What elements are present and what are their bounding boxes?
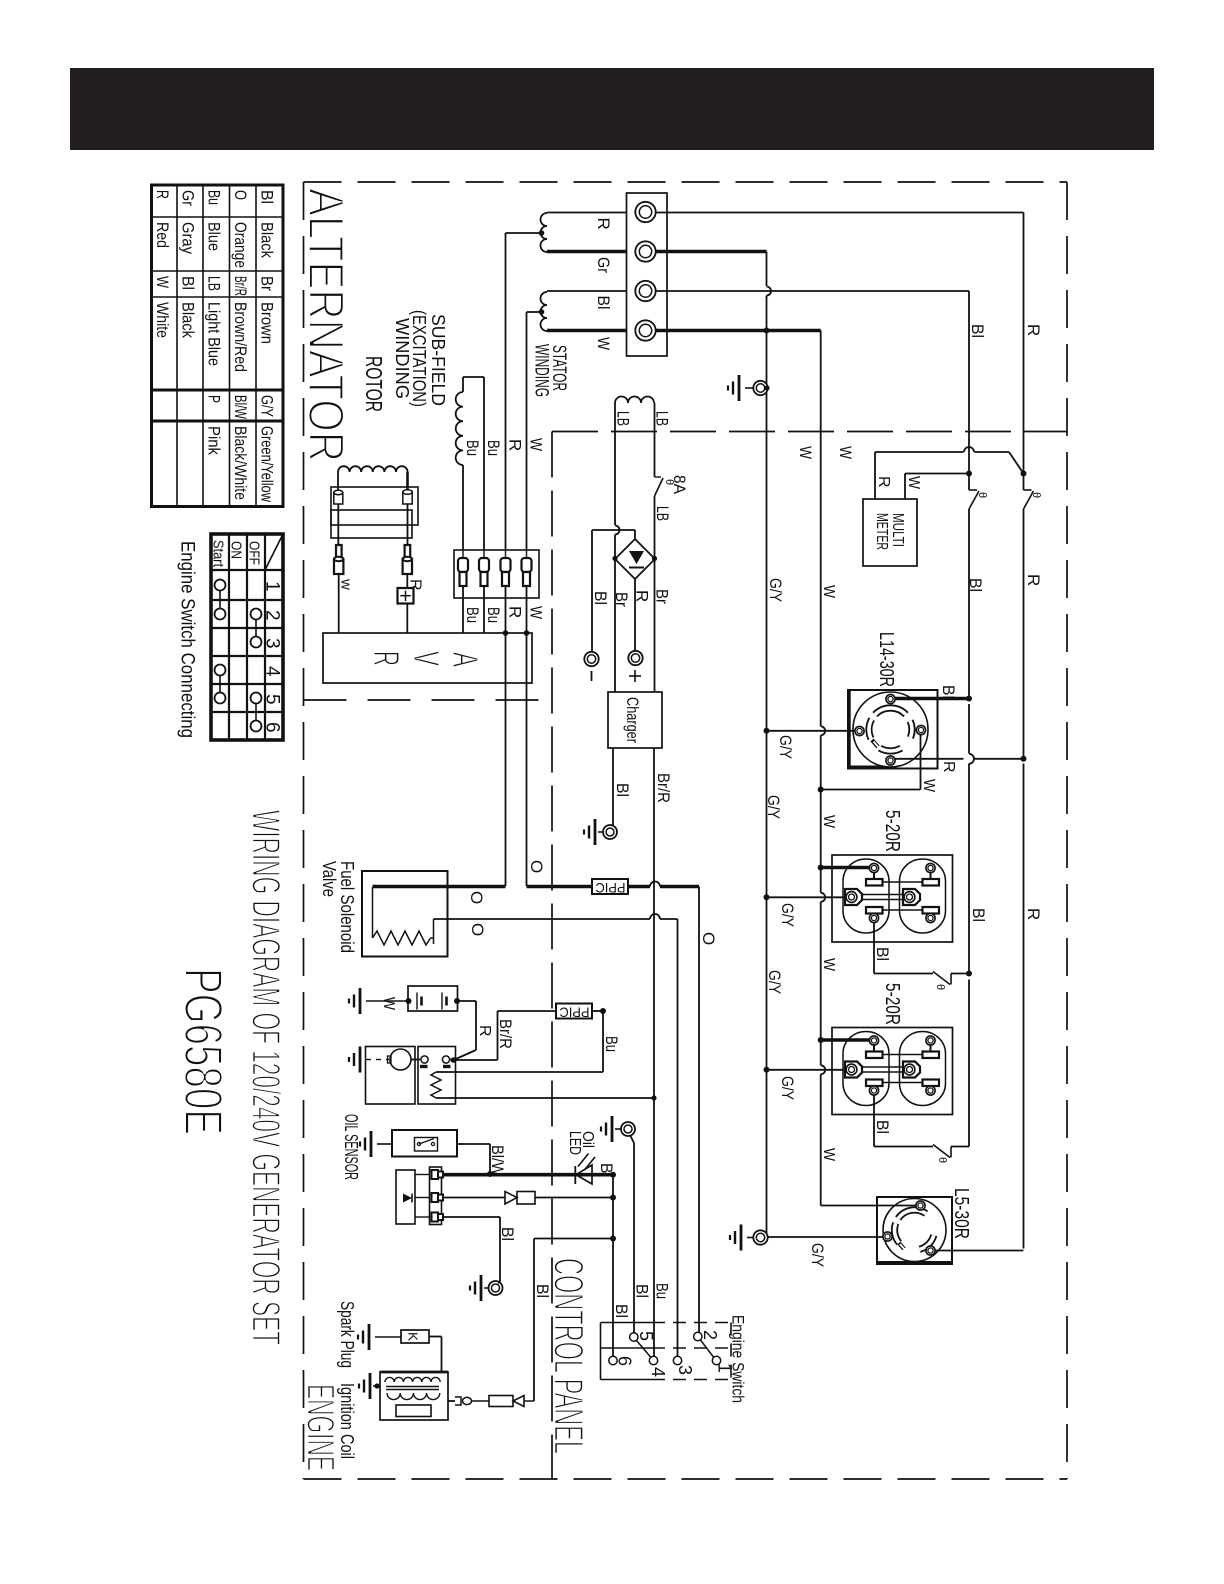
kill diode resistor	[489, 1396, 513, 1407]
svg-text:W: W	[820, 815, 837, 829]
dashed partition control panel / engine-alternator	[551, 432, 553, 1480]
stator main winding 2 (Bl-W)	[541, 292, 548, 331]
svg-text:W: W	[527, 438, 546, 451]
L5-30R pin W	[916, 1201, 925, 1210]
svg-text:ENGINE: ENGINE	[299, 1384, 342, 1471]
svg-text:Ignition Coil: Ignition Coil	[337, 1383, 357, 1459]
wire G/Y to 5-20R 2	[767, 1069, 847, 1071]
terminal W	[635, 320, 655, 340]
wire Bl CDI to ground	[443, 1216, 500, 1218]
multimeter box	[863, 499, 917, 566]
ignition coil ground	[369, 1373, 372, 1399]
wire G/Y to L14-30R	[767, 730, 856, 732]
spark plug cap resistor K	[401, 1330, 429, 1343]
stator main winding 1 (R-Gr)	[541, 213, 548, 252]
table diagonal slash	[265, 534, 283, 570]
starter motor box	[366, 1047, 416, 1105]
wire W below AVR	[526, 633, 528, 886]
svg-text:6: 6	[615, 1356, 635, 1366]
svg-text:W: W	[594, 337, 613, 350]
svg-text:O: O	[467, 891, 486, 904]
svg-text:R: R	[476, 1025, 493, 1037]
svg-text:Bl: Bl	[873, 947, 892, 961]
terminal R	[635, 202, 655, 222]
svg-text:K: K	[406, 1332, 421, 1341]
oil LED ground terminal	[611, 1116, 614, 1142]
wire Gr output run (thick)	[656, 250, 767, 254]
L14-30R ground slot hook	[872, 740, 878, 747]
svg-text:R: R	[940, 761, 957, 773]
connector 4-pin (AVR harness)	[454, 550, 539, 598]
svg-text:G/Y: G/Y	[808, 1243, 827, 1267]
svg-text:Start: Start	[210, 540, 227, 568]
DC output terminal minus	[584, 652, 598, 666]
engine switch pin 6	[609, 1356, 617, 1364]
switch contact 5-4	[637, 1341, 652, 1358]
svg-text:LB: LB	[205, 276, 224, 291]
wire O drop to switch pin 2	[698, 887, 700, 1333]
thermal breaker 5-20R 2	[933, 1145, 950, 1158]
svg-text:Green/Yellow: Green/Yellow	[258, 426, 277, 503]
svg-text:Charger: Charger	[623, 697, 642, 743]
5-20R 1 hot slots	[866, 907, 883, 914]
svg-text:WIRING DIAGRAM OF 120/240V GEN: WIRING DIAGRAM OF 120/240V GENERATOR SET	[244, 810, 288, 1345]
L14-30R pin Bl	[886, 694, 895, 703]
svg-text:A: A	[445, 652, 486, 667]
svg-text:Bl: Bl	[969, 908, 988, 922]
svg-text:Gr: Gr	[179, 190, 198, 206]
Start contacts 4-5	[215, 665, 226, 676]
svg-text:4: 4	[648, 1367, 668, 1377]
svg-text:R: R	[1024, 908, 1043, 920]
svg-text:5-20R: 5-20R	[881, 810, 903, 852]
svg-text:METER: METER	[873, 513, 890, 550]
svg-text:θ: θ	[1030, 492, 1042, 498]
oil sensor ground	[370, 1131, 373, 1157]
wire R from brush right	[406, 574, 408, 588]
svg-text:W: W	[527, 606, 546, 619]
svg-text:R: R	[1024, 574, 1043, 586]
polarity mark + box	[398, 588, 414, 604]
svg-text:6: 6	[262, 722, 283, 733]
svg-text:OFF: OFF	[246, 541, 263, 565]
stator LB sub-winding	[615, 397, 654, 403]
diode to kill circuit	[505, 1192, 517, 1205]
thermal breaker Bl circuit	[968, 474, 970, 491]
svg-text:Spark Plug: Spark Plug	[337, 1301, 357, 1368]
L5-30R pin G	[883, 1232, 892, 1241]
svg-text:Blue: Blue	[205, 222, 224, 251]
svg-text:Bl: Bl	[258, 190, 277, 204]
wire R line lower	[1023, 764, 1025, 1249]
OFF contacts 2-3	[251, 609, 262, 620]
svg-text:L5-30R: L5-30R	[950, 1188, 972, 1239]
wire Bl/W CDI to LED (thick)	[443, 1173, 613, 1177]
svg-text:O: O	[527, 860, 546, 873]
svg-text:MULTI: MULTI	[889, 513, 906, 547]
ground line G/Y from neutral bond	[766, 331, 768, 1234]
wire Bl line	[968, 509, 970, 698]
svg-text:Pink: Pink	[205, 426, 224, 455]
svg-text:Bu: Bu	[463, 607, 482, 623]
brush left	[336, 545, 342, 561]
ignition coil core	[386, 1386, 439, 1388]
junction R	[1021, 471, 1027, 477]
rotor coil lead right	[406, 472, 409, 491]
svg-text:R: R	[153, 190, 172, 199]
AVR regulator box	[323, 633, 532, 683]
svg-text:Bu: Bu	[653, 1283, 672, 1299]
CDI rectifier box	[396, 1170, 415, 1224]
svg-text:Bl: Bl	[533, 1284, 552, 1298]
svg-text:G/Y: G/Y	[766, 578, 785, 602]
sub-field (excitation) winding	[456, 392, 463, 465]
svg-text:LED: LED	[566, 1131, 583, 1155]
connector 3-pin CDI	[430, 1167, 442, 1225]
svg-text:G/Y: G/Y	[765, 970, 784, 994]
L14-30R pin R	[886, 756, 895, 765]
wire color code table	[152, 185, 284, 507]
svg-text:G/Y: G/Y	[258, 395, 277, 417]
svg-text:Bu: Bu	[463, 440, 482, 456]
svg-text:W: W	[920, 779, 937, 793]
dashed enclosure border (machine outline)	[304, 181, 1068, 183]
rectifier diode bridge	[615, 539, 655, 579]
svg-text:Fuel Solenoid: Fuel Solenoid	[337, 861, 357, 953]
svg-text:Bu: Bu	[484, 607, 503, 623]
spark plug connector	[455, 1397, 461, 1405]
svg-text:V: V	[406, 651, 447, 666]
engine switch pin 1	[712, 1356, 720, 1364]
svg-text:Br/R: Br/R	[231, 276, 250, 296]
spark plug ground	[368, 1324, 371, 1350]
wire LED to junction	[610, 1172, 616, 1178]
terminal Gr	[635, 241, 655, 261]
svg-text:Orange: Orange	[231, 222, 250, 268]
wire Bl line continues	[968, 704, 970, 754]
rotor core block B	[331, 510, 412, 538]
header banner (redacted title block)	[70, 68, 1154, 150]
5-20R 2 neutral slots	[869, 1036, 878, 1045]
fuel solenoid valve box	[362, 871, 448, 957]
svg-text:Bu: Bu	[484, 440, 503, 456]
wire G/Y to 5-20R 1	[767, 896, 847, 898]
svg-text:Black: Black	[179, 302, 198, 338]
svg-text:Bu: Bu	[602, 1036, 621, 1052]
thermal breaker 5-20R 1	[933, 972, 950, 985]
svg-text:WINDING: WINDING	[392, 318, 412, 399]
svg-text:O: O	[468, 923, 487, 936]
ignition coil box	[380, 1372, 448, 1420]
wire Bl to L14-30R (thick)	[895, 697, 969, 701]
svg-text:R: R	[594, 218, 613, 230]
relay coil	[431, 1072, 441, 1098]
wire G/Y to L5-30R	[768, 1236, 883, 1238]
oil sensor box	[392, 1130, 457, 1157]
svg-text:R: R	[506, 606, 525, 618]
engine switch pin 5	[630, 1333, 638, 1341]
svg-text:Black/White: Black/White	[231, 426, 250, 500]
receptacle L5-30R	[877, 1197, 952, 1264]
wire R through AVR	[505, 586, 507, 633]
wire R battery to relay	[457, 1000, 476, 1002]
terminal Bl	[635, 281, 655, 301]
L14-30R pin G	[855, 726, 864, 735]
svg-text:LB: LB	[653, 506, 672, 521]
svg-text:R: R	[1024, 324, 1043, 336]
rotor field winding	[338, 466, 408, 472]
brush right	[405, 545, 411, 561]
svg-text:W: W	[820, 1148, 837, 1162]
wire relay coil to pin 4	[436, 1097, 654, 1099]
svg-text:W: W	[836, 446, 855, 459]
svg-text:W: W	[905, 476, 922, 490]
svg-text:Bl: Bl	[633, 1284, 652, 1298]
svg-text:PPIC: PPIC	[596, 880, 626, 896]
wire W through AVR	[526, 586, 528, 633]
svg-text:ON: ON	[228, 541, 245, 559]
5-20R 1 ground pins	[845, 889, 862, 905]
svg-text:θ: θ	[934, 984, 946, 990]
neutral bond junction	[764, 328, 770, 334]
relay contact left	[421, 1056, 428, 1063]
svg-text:Bl: Bl	[939, 685, 958, 699]
kill diode	[513, 1396, 524, 1407]
svg-text:W: W	[153, 276, 172, 288]
svg-text:W: W	[820, 958, 837, 972]
receptacle L14-30R	[848, 690, 938, 769]
connector PPIC 2	[556, 1004, 592, 1019]
svg-text:Bl: Bl	[612, 1304, 631, 1318]
svg-text:8A: 8A	[670, 475, 689, 495]
svg-text:5: 5	[262, 694, 283, 705]
wire W to L5-30R	[820, 790, 822, 893]
svg-text:White: White	[153, 302, 172, 338]
wire R line	[1023, 509, 1025, 758]
L5-30R pin R	[926, 1246, 935, 1255]
svg-text:R: R	[875, 476, 892, 488]
svg-text:4: 4	[262, 666, 283, 677]
multimeter lead W	[904, 474, 906, 500]
wire W drop	[820, 331, 822, 727]
svg-text:ALTERNATOR: ALTERNATOR	[298, 188, 354, 462]
junction Bl	[966, 471, 972, 477]
brush lead right	[407, 504, 409, 545]
engine switch pin 3	[673, 1356, 681, 1364]
receptacle 5-20R duplex 1	[832, 855, 953, 942]
wire LB right upper	[654, 403, 656, 477]
svg-text:Br: Br	[258, 276, 277, 291]
wire kill to junction	[533, 1239, 535, 1402]
svg-text:Bl: Bl	[873, 1120, 892, 1134]
DC output terminal plus	[628, 651, 642, 665]
svg-text:Valve: Valve	[319, 861, 339, 897]
svg-text:Gray: Gray	[179, 222, 198, 254]
svg-text:O: O	[231, 190, 250, 200]
wire Bl line lower	[968, 980, 970, 1147]
wire Bu from PPIC 2	[592, 1010, 603, 1012]
svg-text:G/Y: G/Y	[776, 735, 795, 759]
wire CDI diode output	[443, 1197, 505, 1199]
battery box	[408, 986, 458, 1011]
thermal breaker R circuit	[1023, 474, 1025, 491]
wire Br/R charger drop	[653, 748, 655, 1096]
wire Bu to AVR	[483, 586, 485, 633]
starter relay box	[418, 1047, 456, 1105]
ignition coil secondary winding	[385, 1377, 440, 1382]
CDI ground terminal	[480, 1275, 483, 1301]
wire Gr stator output (thick)	[547, 250, 636, 254]
svg-text:Bl: Bl	[597, 1163, 616, 1177]
wire R to L5-30R	[935, 1250, 1024, 1252]
wire spark to coil	[429, 1336, 442, 1338]
svg-text:R: R	[506, 439, 525, 451]
wire to DC minus	[634, 530, 636, 539]
svg-text:Bl: Bl	[594, 296, 613, 310]
svg-text:Bl/W: Bl/W	[231, 395, 250, 419]
engine switch connecting table	[211, 534, 283, 740]
svg-text:Engine Switch: Engine Switch	[729, 1315, 748, 1403]
starter motor	[390, 1049, 411, 1070]
wire Bl stator output	[547, 290, 636, 292]
wire Br/R to PPIC 2	[454, 1059, 498, 1061]
wire W to 5-20R 1 (thick)	[821, 866, 869, 870]
OFF contacts 5-6	[251, 693, 262, 704]
L14-30R pin W	[916, 725, 925, 734]
wire LB left	[614, 403, 616, 525]
ignition coil primary winding	[387, 1393, 440, 1400]
charger ground terminal	[594, 819, 597, 845]
wire Bl junction line	[612, 1175, 614, 1356]
svg-text:L14-30R: L14-30R	[875, 632, 897, 687]
svg-text:SUB-FIELD: SUB-FIELD	[428, 314, 448, 406]
svg-text:Bl: Bl	[613, 783, 632, 797]
wire Bu to AVR	[462, 586, 464, 633]
battery ground	[359, 988, 362, 1014]
svg-text:PPIC: PPIC	[560, 1004, 590, 1020]
svg-text:Brown/Red: Brown/Red	[231, 302, 250, 372]
wire oil LED terminal to pin 5	[630, 1135, 634, 1143]
wire R drop	[1023, 213, 1025, 474]
wire R stator output	[547, 212, 636, 214]
stator winding 2 center tap wire	[527, 311, 542, 313]
engine switch pin 4	[649, 1356, 657, 1364]
multimeter lead R	[874, 452, 876, 499]
oil warning LED	[574, 1166, 576, 1184]
svg-text:Light Blue: Light Blue	[205, 302, 224, 366]
svg-text:5: 5	[636, 1331, 656, 1341]
relay contact right	[442, 1056, 449, 1063]
svg-text:Red: Red	[153, 222, 172, 248]
svg-text:1: 1	[262, 581, 283, 592]
wire Bl output run	[656, 290, 970, 292]
svg-text:WINDING: WINDING	[531, 344, 552, 397]
wire O solenoid to connector (thick)	[527, 885, 593, 889]
wire w from brush left	[338, 574, 340, 633]
wire R below AVR	[505, 633, 507, 886]
battery charger box	[608, 692, 662, 748]
fuel solenoid coil	[373, 887, 434, 945]
wire Br left to charger	[614, 559, 616, 692]
svg-text:θ: θ	[936, 1157, 948, 1163]
svg-text:PG6580E: PG6580E	[173, 968, 233, 1135]
svg-text:G/Y: G/Y	[778, 903, 797, 927]
fuse 8A	[655, 478, 664, 496]
wire Bl from 5-20R 1	[873, 922, 875, 974]
svg-text:G/Y: G/Y	[764, 795, 783, 819]
brush lead left	[337, 504, 339, 545]
wire Gr drop to neutral bond	[766, 252, 768, 287]
svg-text:Bl: Bl	[498, 1227, 517, 1241]
alternator output terminal block	[627, 193, 668, 356]
wire O continues (thick)	[628, 885, 650, 889]
wire R output run	[656, 212, 1024, 214]
svg-text:θ: θ	[976, 492, 988, 498]
rotor core block A	[331, 487, 418, 525]
wire motor to relay contact	[411, 1059, 420, 1061]
wire R to DC plus	[634, 579, 636, 651]
svg-text:Bl: Bl	[179, 276, 198, 290]
wire LB right lower	[654, 496, 656, 559]
wire Bl drop	[968, 291, 970, 474]
svg-text:Black: Black	[258, 222, 277, 258]
svg-text:G/Y: G/Y	[778, 1076, 797, 1100]
svg-text:w: w	[338, 578, 355, 590]
5-20R 2 hot slots	[866, 1080, 883, 1087]
svg-text:Bu: Bu	[205, 190, 224, 205]
relay fixed contacts	[420, 1065, 428, 1068]
switch contact 2-1	[701, 1340, 714, 1358]
slip ring right	[403, 492, 412, 504]
svg-text:Br/R: Br/R	[654, 773, 673, 803]
Start contacts 1-2	[215, 580, 226, 591]
svg-text:3: 3	[675, 1365, 695, 1375]
svg-text:Engine Switch Connecting: Engine Switch Connecting	[177, 541, 198, 738]
stator winding 1 center tap wire	[506, 232, 542, 234]
svg-text:Bl: Bl	[591, 591, 610, 605]
svg-text:Bl: Bl	[968, 324, 987, 338]
dashed partition alternator bottom	[304, 699, 553, 701]
receptacle 5-20R duplex 2	[832, 1028, 953, 1115]
L5-30R ground slot hook	[899, 1243, 904, 1249]
wire W stator output (thick)	[547, 329, 636, 333]
wire R to L14-30R	[895, 758, 964, 760]
svg-text:R: R	[633, 590, 652, 602]
wire Bl charger to ground	[612, 748, 614, 825]
wire O solenoid to R (thick)	[373, 885, 506, 889]
engine switch pin 2	[694, 1332, 702, 1340]
svg-text:2: 2	[700, 1330, 720, 1340]
svg-text:O: O	[699, 932, 718, 945]
slip ring left	[334, 493, 343, 505]
svg-text:W: W	[820, 585, 837, 599]
wire W to 5-20R 2 (thick)	[821, 1038, 869, 1042]
5-20R 1 neutral slots	[869, 863, 878, 872]
svg-text:Gr: Gr	[594, 257, 613, 273]
svg-text:2: 2	[262, 610, 283, 621]
wire W output run (thick)	[656, 329, 821, 333]
svg-text:P: P	[205, 395, 224, 403]
ignition coil resistor	[396, 1405, 431, 1417]
rotor coil lead left	[337, 472, 339, 491]
wire Bu to relay coil	[436, 1071, 603, 1073]
svg-text:ROTOR: ROTOR	[361, 356, 387, 412]
svg-text:Bl: Bl	[966, 578, 985, 592]
svg-text:W: W	[380, 997, 397, 1011]
svg-text:5-20R: 5-20R	[881, 983, 903, 1025]
engine switch box	[600, 1323, 602, 1380]
wire Bl from 5-20R 2	[873, 1095, 875, 1147]
